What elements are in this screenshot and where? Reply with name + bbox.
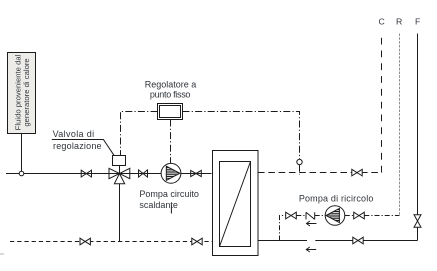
svg-text:Valvola di: Valvola di: [53, 129, 95, 139]
svg-text:generatore di calore: generatore di calore: [22, 58, 31, 126]
svg-text:Pompa circuito: Pompa circuito: [139, 189, 199, 199]
svg-text:F: F: [415, 17, 420, 27]
svg-text:Regolatore a: Regolatore a: [145, 80, 197, 90]
svg-text:Pompa di ricircolo: Pompa di ricircolo: [299, 194, 374, 204]
svg-text:R: R: [396, 17, 402, 27]
svg-text:regolazione: regolazione: [53, 141, 102, 151]
svg-text:C: C: [378, 17, 384, 27]
svg-text:Fluido proveniente dal: Fluido proveniente dal: [13, 54, 22, 130]
svg-text:punto fisso: punto fisso: [150, 90, 191, 100]
svg-text:scaldante: scaldante: [139, 200, 178, 210]
